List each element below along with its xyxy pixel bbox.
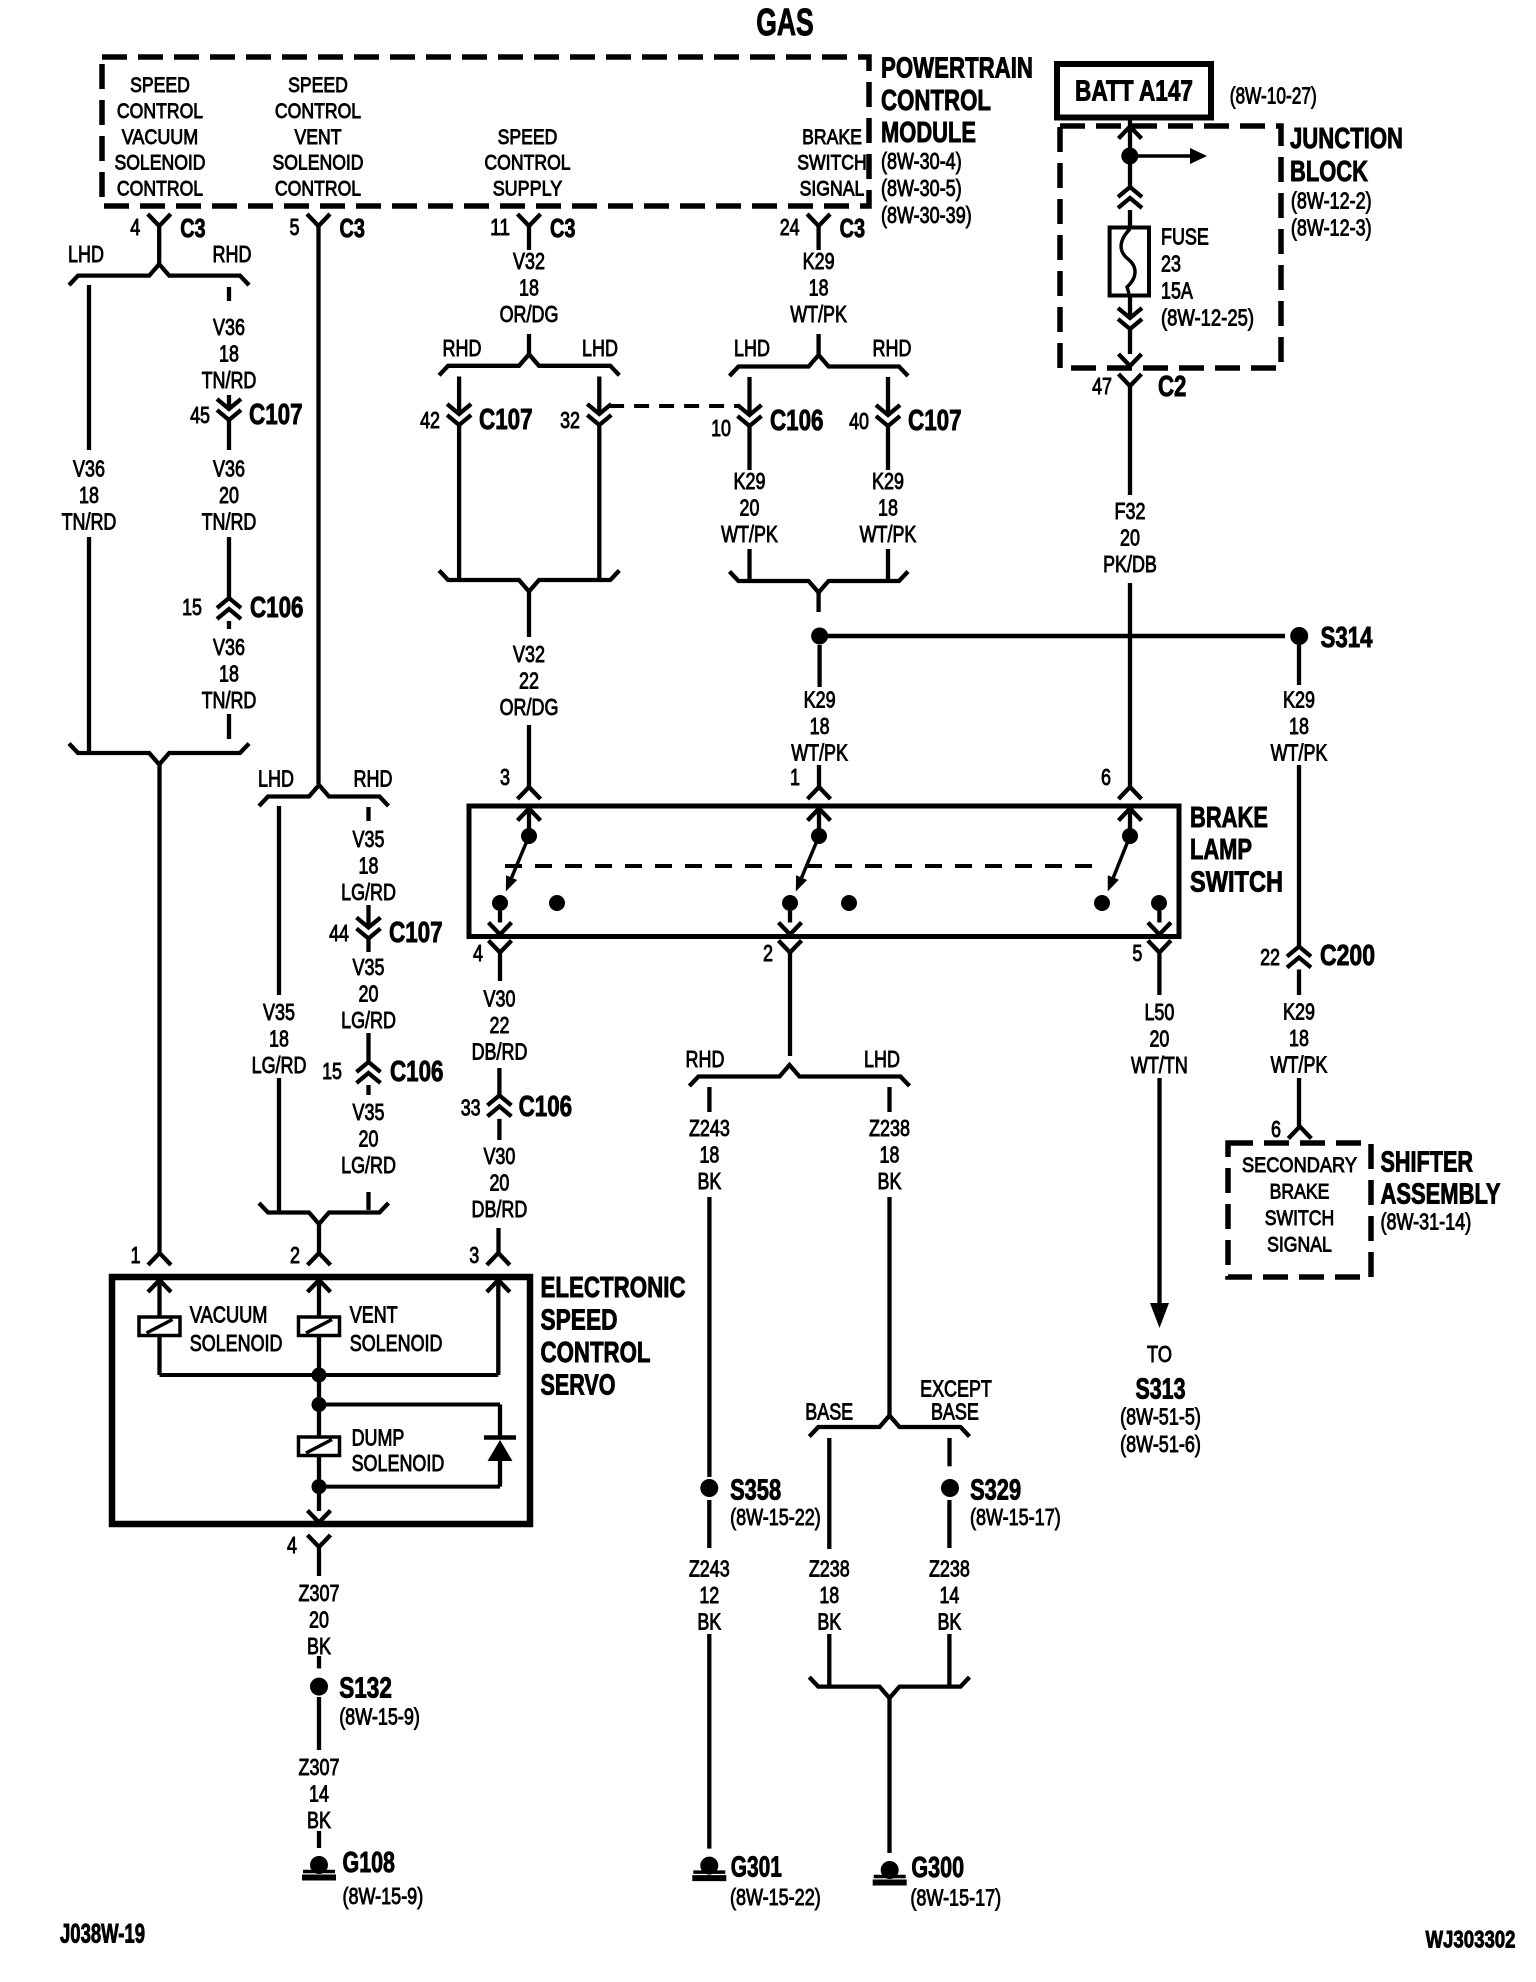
svg-text:1: 1 xyxy=(790,764,800,790)
svg-text:S314: S314 xyxy=(1321,622,1373,654)
svg-text:6: 6 xyxy=(1101,764,1111,790)
svg-text:Z238: Z238 xyxy=(809,1556,850,1582)
svg-text:C107: C107 xyxy=(389,917,443,949)
svg-text:18: 18 xyxy=(359,853,379,879)
svg-text:33: 33 xyxy=(461,1095,481,1121)
svg-text:C2: C2 xyxy=(1158,371,1186,403)
svg-text:S358: S358 xyxy=(730,1474,781,1506)
svg-text:(8W-15-9): (8W-15-9) xyxy=(343,1883,424,1909)
svg-text:BLOCK: BLOCK xyxy=(1290,156,1368,188)
svg-text:23: 23 xyxy=(1161,251,1181,277)
svg-text:RHD: RHD xyxy=(873,335,912,361)
svg-text:SIGNAL: SIGNAL xyxy=(1267,1233,1332,1257)
svg-text:(8W-30-5): (8W-30-5) xyxy=(881,175,962,201)
svg-text:V35: V35 xyxy=(263,999,295,1025)
svg-text:RHD: RHD xyxy=(686,1046,725,1072)
svg-text:SWITCH: SWITCH xyxy=(1265,1206,1335,1230)
svg-text:Z238: Z238 xyxy=(869,1115,910,1141)
svg-text:(8W-12-25): (8W-12-25) xyxy=(1161,305,1254,331)
svg-text:18: 18 xyxy=(819,1582,839,1608)
svg-text:CONTROL: CONTROL xyxy=(275,99,361,123)
svg-text:C107: C107 xyxy=(908,405,962,437)
svg-text:WT/PK: WT/PK xyxy=(721,521,778,547)
svg-text:FUSE: FUSE xyxy=(1161,224,1209,250)
svg-text:SWITCH: SWITCH xyxy=(797,151,867,175)
svg-text:14: 14 xyxy=(309,1781,329,1807)
svg-text:BRAKE: BRAKE xyxy=(1270,1180,1330,1204)
svg-text:SOLENOID: SOLENOID xyxy=(190,1330,283,1356)
svg-text:18: 18 xyxy=(519,275,539,301)
svg-text:18: 18 xyxy=(1289,1025,1309,1051)
svg-text:SECONDARY: SECONDARY xyxy=(1242,1153,1357,1177)
svg-text:WT/PK: WT/PK xyxy=(1271,739,1328,765)
svg-text:15: 15 xyxy=(322,1058,342,1084)
svg-text:C107: C107 xyxy=(249,399,303,431)
svg-text:12: 12 xyxy=(699,1582,719,1608)
svg-text:K29: K29 xyxy=(1283,686,1315,712)
svg-text:F32: F32 xyxy=(1115,498,1146,524)
svg-text:SPEED: SPEED xyxy=(541,1305,618,1337)
svg-text:V36: V36 xyxy=(213,314,245,340)
svg-text:(8W-31-14): (8W-31-14) xyxy=(1381,1209,1472,1235)
svg-text:18: 18 xyxy=(809,275,829,301)
svg-text:20: 20 xyxy=(359,981,379,1007)
svg-text:CONTROL: CONTROL xyxy=(881,85,991,117)
svg-text:SWITCH: SWITCH xyxy=(1190,867,1283,899)
svg-text:(8W-15-22): (8W-15-22) xyxy=(730,1504,821,1530)
svg-text:RHD: RHD xyxy=(354,766,393,792)
svg-text:BK: BK xyxy=(937,1609,961,1635)
svg-text:ASSEMBLY: ASSEMBLY xyxy=(1381,1179,1501,1211)
svg-text:20: 20 xyxy=(740,495,760,521)
svg-text:18: 18 xyxy=(219,661,239,687)
svg-text:K29: K29 xyxy=(872,468,904,494)
svg-text:14: 14 xyxy=(939,1582,959,1608)
svg-text:BK: BK xyxy=(307,1807,331,1833)
svg-text:L50: L50 xyxy=(1144,999,1174,1025)
svg-text:(8W-30-4): (8W-30-4) xyxy=(881,148,962,174)
svg-text:C107: C107 xyxy=(479,404,533,436)
svg-text:DUMP: DUMP xyxy=(352,1424,405,1450)
svg-text:PK/DB: PK/DB xyxy=(1103,551,1157,577)
svg-text:C106: C106 xyxy=(390,1056,444,1088)
svg-text:2: 2 xyxy=(290,1242,300,1268)
svg-text:JUNCTION: JUNCTION xyxy=(1290,123,1403,155)
svg-text:WT/PK: WT/PK xyxy=(860,521,917,547)
svg-text:18: 18 xyxy=(810,713,830,739)
svg-text:V36: V36 xyxy=(73,456,105,482)
svg-text:18: 18 xyxy=(878,495,898,521)
svg-text:5: 5 xyxy=(290,214,300,240)
svg-text:G108: G108 xyxy=(343,1847,396,1879)
svg-text:WT/TN: WT/TN xyxy=(1131,1052,1188,1078)
svg-text:BK: BK xyxy=(817,1609,841,1635)
svg-text:ELECTRONIC: ELECTRONIC xyxy=(541,1272,686,1304)
svg-text:V30: V30 xyxy=(484,986,516,1012)
svg-text:C106: C106 xyxy=(519,1091,573,1123)
svg-text:BK: BK xyxy=(697,1609,721,1635)
svg-text:LHD: LHD xyxy=(258,766,294,792)
svg-text:SERVO: SERVO xyxy=(541,1370,616,1402)
svg-text:BK: BK xyxy=(697,1168,721,1194)
svg-text:BRAKE: BRAKE xyxy=(802,125,862,149)
svg-text:SOLENOID: SOLENOID xyxy=(272,151,363,175)
svg-text:RHD: RHD xyxy=(443,335,482,361)
svg-text:SOLENOID: SOLENOID xyxy=(352,1450,445,1476)
svg-text:3: 3 xyxy=(500,764,510,790)
svg-text:K29: K29 xyxy=(804,686,836,712)
svg-text:C3: C3 xyxy=(180,213,205,243)
svg-text:BK: BK xyxy=(878,1168,902,1194)
svg-text:V35: V35 xyxy=(353,826,385,852)
svg-text:WJ303302: WJ303302 xyxy=(1426,1927,1516,1954)
svg-text:2: 2 xyxy=(763,940,773,966)
svg-text:SIGNAL: SIGNAL xyxy=(800,177,865,201)
svg-text:CONTROL: CONTROL xyxy=(275,177,361,201)
svg-text:TN/RD: TN/RD xyxy=(62,509,117,535)
svg-text:(8W-12-2): (8W-12-2) xyxy=(1291,188,1372,214)
svg-text:SPEED: SPEED xyxy=(498,125,558,149)
svg-text:22: 22 xyxy=(519,668,539,694)
svg-text:32: 32 xyxy=(560,407,580,433)
svg-text:(8W-15-22): (8W-15-22) xyxy=(730,1884,821,1910)
svg-text:OR/DG: OR/DG xyxy=(500,301,559,327)
svg-text:CONTROL: CONTROL xyxy=(484,151,570,175)
svg-text:C3: C3 xyxy=(340,213,365,243)
svg-text:(8W-12-3): (8W-12-3) xyxy=(1291,215,1372,241)
svg-text:SOLENOID: SOLENOID xyxy=(114,151,205,175)
svg-text:4: 4 xyxy=(130,214,140,240)
svg-text:VACUUM: VACUUM xyxy=(190,1302,268,1328)
svg-text:5: 5 xyxy=(1132,940,1142,966)
svg-text:BASE: BASE xyxy=(931,1398,979,1424)
svg-text:4: 4 xyxy=(473,940,483,966)
svg-text:4: 4 xyxy=(287,1532,297,1558)
svg-text:(8W-51-5): (8W-51-5) xyxy=(1120,1404,1201,1430)
svg-text:Z307: Z307 xyxy=(299,1754,340,1780)
svg-text:(8W-51-6): (8W-51-6) xyxy=(1120,1431,1201,1457)
svg-text:K29: K29 xyxy=(803,248,835,274)
svg-text:GAS: GAS xyxy=(756,2,814,44)
svg-text:TO: TO xyxy=(1147,1341,1172,1367)
svg-text:J038W-19: J038W-19 xyxy=(60,1919,145,1949)
svg-text:SPEED: SPEED xyxy=(288,73,348,97)
svg-text:LHD: LHD xyxy=(582,335,618,361)
svg-text:POWERTRAIN: POWERTRAIN xyxy=(881,53,1033,85)
svg-text:Z243: Z243 xyxy=(689,1115,730,1141)
svg-text:DB/RD: DB/RD xyxy=(472,1196,528,1222)
svg-text:SHIFTER: SHIFTER xyxy=(1381,1146,1474,1178)
svg-text:47: 47 xyxy=(1092,373,1112,399)
svg-text:18: 18 xyxy=(880,1142,900,1168)
svg-text:LHD: LHD xyxy=(734,335,770,361)
svg-text:11: 11 xyxy=(490,214,510,240)
svg-text:(8W-15-9): (8W-15-9) xyxy=(339,1704,420,1730)
svg-text:MODULE: MODULE xyxy=(881,117,976,149)
svg-text:CONTROL: CONTROL xyxy=(541,1337,651,1369)
svg-text:42: 42 xyxy=(420,407,440,433)
svg-text:3: 3 xyxy=(469,1242,479,1268)
svg-text:20: 20 xyxy=(309,1607,329,1633)
svg-text:LG/RD: LG/RD xyxy=(341,1007,396,1033)
svg-text:WT/PK: WT/PK xyxy=(790,301,847,327)
svg-text:BRAKE: BRAKE xyxy=(1190,802,1268,834)
svg-text:LHD: LHD xyxy=(864,1046,900,1072)
svg-text:(8W-15-17): (8W-15-17) xyxy=(970,1504,1061,1530)
svg-text:VENT: VENT xyxy=(295,125,342,149)
svg-text:TN/RD: TN/RD xyxy=(202,509,257,535)
svg-text:1: 1 xyxy=(131,1242,141,1268)
svg-text:24: 24 xyxy=(780,214,800,240)
svg-text:C3: C3 xyxy=(550,213,575,243)
svg-text:Z238: Z238 xyxy=(929,1556,970,1582)
svg-text:15: 15 xyxy=(182,594,202,620)
svg-text:22: 22 xyxy=(1260,944,1280,970)
svg-text:22: 22 xyxy=(490,1012,510,1038)
svg-text:CONTROL: CONTROL xyxy=(117,177,203,201)
svg-text:10: 10 xyxy=(711,415,731,441)
svg-text:BK: BK xyxy=(307,1633,331,1659)
svg-text:K29: K29 xyxy=(1283,999,1315,1025)
svg-text:K29: K29 xyxy=(734,468,766,494)
svg-text:18: 18 xyxy=(79,482,99,508)
svg-text:TN/RD: TN/RD xyxy=(202,687,257,713)
svg-text:LG/RD: LG/RD xyxy=(341,1152,396,1178)
svg-text:V35: V35 xyxy=(353,954,385,980)
svg-text:20: 20 xyxy=(359,1126,379,1152)
svg-text:C200: C200 xyxy=(1320,940,1375,972)
svg-text:Z243: Z243 xyxy=(689,1556,730,1582)
svg-text:V32: V32 xyxy=(513,641,545,667)
svg-text:C3: C3 xyxy=(840,213,865,243)
svg-text:V35: V35 xyxy=(353,1099,385,1125)
svg-text:LG/RD: LG/RD xyxy=(252,1052,307,1078)
svg-text:VENT: VENT xyxy=(350,1302,398,1328)
svg-text:G301: G301 xyxy=(731,1851,782,1883)
svg-text:BASE: BASE xyxy=(805,1398,853,1424)
svg-text:LAMP: LAMP xyxy=(1190,834,1252,866)
svg-text:S132: S132 xyxy=(339,1673,392,1705)
svg-text:LHD: LHD xyxy=(68,241,104,267)
svg-text:6: 6 xyxy=(1271,1116,1281,1142)
svg-text:18: 18 xyxy=(1289,713,1309,739)
svg-text:15A: 15A xyxy=(1161,278,1193,304)
svg-text:V32: V32 xyxy=(513,248,545,274)
svg-text:S313: S313 xyxy=(1136,1374,1186,1406)
svg-text:SOLENOID: SOLENOID xyxy=(350,1330,443,1356)
svg-text:V36: V36 xyxy=(213,634,245,660)
svg-text:V36: V36 xyxy=(213,456,245,482)
svg-text:TN/RD: TN/RD xyxy=(202,367,257,393)
svg-text:C106: C106 xyxy=(250,592,304,624)
svg-text:S329: S329 xyxy=(970,1474,1021,1506)
svg-text:CONTROL: CONTROL xyxy=(117,99,203,123)
svg-text:18: 18 xyxy=(699,1142,719,1168)
svg-text:44: 44 xyxy=(329,920,349,946)
svg-text:G300: G300 xyxy=(911,1852,964,1884)
svg-text:18: 18 xyxy=(219,341,239,367)
svg-text:(8W-10-27): (8W-10-27) xyxy=(1230,82,1317,108)
svg-text:Z307: Z307 xyxy=(299,1580,340,1606)
svg-text:WT/PK: WT/PK xyxy=(791,739,848,765)
svg-text:WT/PK: WT/PK xyxy=(1271,1052,1328,1078)
svg-text:RHD: RHD xyxy=(213,241,252,267)
svg-text:SPEED: SPEED xyxy=(130,73,190,97)
svg-text:20: 20 xyxy=(1149,1026,1169,1052)
svg-text:18: 18 xyxy=(269,1026,289,1052)
svg-text:SUPPLY: SUPPLY xyxy=(493,177,563,201)
svg-text:45: 45 xyxy=(190,402,210,428)
svg-text:(8W-15-17): (8W-15-17) xyxy=(910,1885,1001,1911)
svg-text:20: 20 xyxy=(1120,525,1140,551)
svg-text:DB/RD: DB/RD xyxy=(472,1039,528,1065)
svg-text:C106: C106 xyxy=(770,405,824,437)
svg-text:V30: V30 xyxy=(483,1143,515,1169)
svg-text:(8W-30-39): (8W-30-39) xyxy=(881,202,972,228)
svg-text:20: 20 xyxy=(219,482,239,508)
svg-text:40: 40 xyxy=(849,408,869,434)
svg-text:LG/RD: LG/RD xyxy=(341,879,396,905)
svg-text:OR/DG: OR/DG xyxy=(500,694,559,720)
svg-text:BATT A147: BATT A147 xyxy=(1075,76,1193,108)
svg-text:VACUUM: VACUUM xyxy=(122,125,198,149)
svg-text:20: 20 xyxy=(489,1170,509,1196)
